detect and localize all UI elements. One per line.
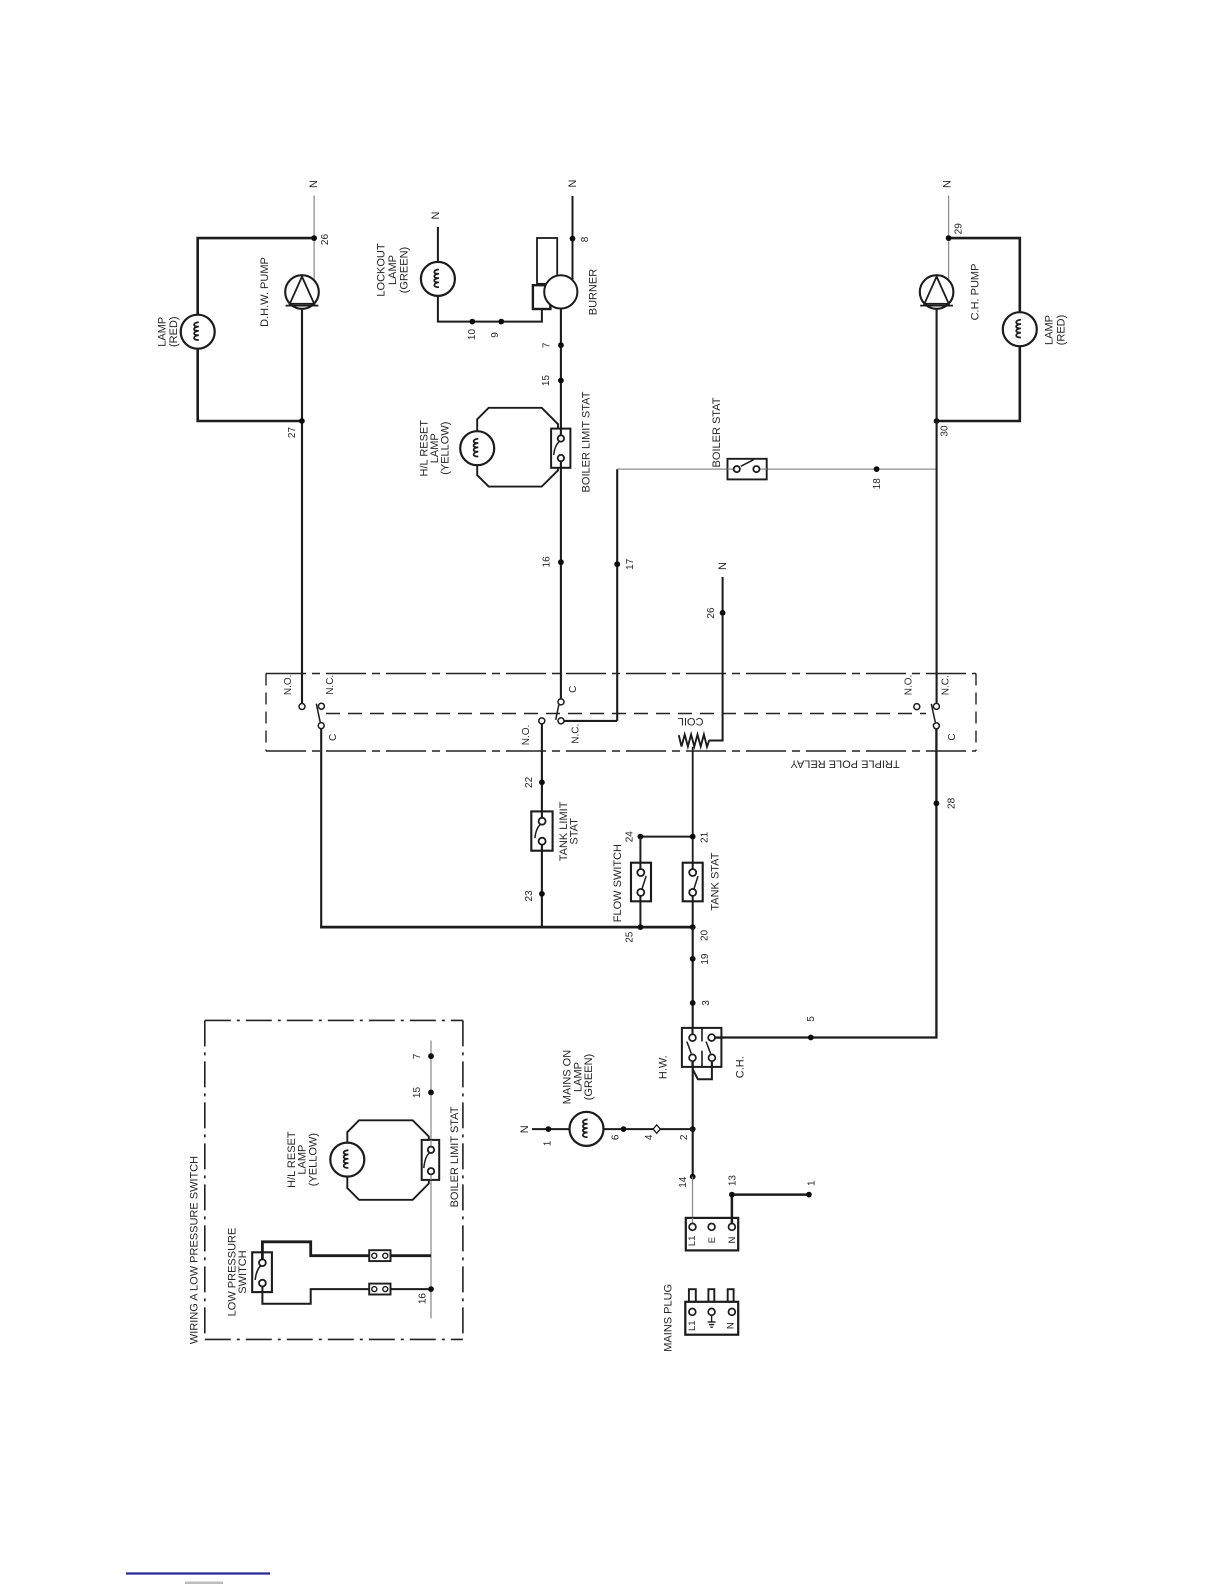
wire boiler stat left lead [617, 468, 734, 470]
selector mechanical link [693, 1061, 712, 1079]
wire node 24 to flow switch [639, 837, 641, 870]
relay pole 3 N.O. contact [914, 704, 920, 710]
svg-text:N.C.: N.C. [570, 724, 581, 744]
relay pole 1 N.C. contact [318, 703, 324, 709]
svg-text:N: N [567, 179, 579, 187]
relay coil feed from N [709, 577, 722, 741]
svg-text:N: N [717, 562, 729, 570]
switch selector H.W./C.H. [682, 1028, 722, 1067]
relay actuator dashed line [326, 713, 926, 715]
svg-text:MAINS PLUG: MAINS PLUG [663, 1284, 675, 1352]
coil COIL [679, 735, 709, 747]
node 1 (lamp) [545, 1126, 551, 1132]
relay pole 2 blade [556, 705, 559, 720]
node 21 [690, 834, 696, 840]
svg-text:4: 4 [644, 1134, 655, 1140]
node 26 [311, 235, 317, 241]
node 22 [539, 779, 545, 785]
svg-text:6: 6 [610, 1134, 621, 1140]
net N (burner lead) [572, 196, 574, 280]
svg-text:LOCKOUT: LOCKOUT [376, 243, 388, 296]
node 25 [638, 924, 644, 930]
wire terminal N to node 13 and 1 [732, 1195, 809, 1224]
node 4 (diamond) [653, 1125, 660, 1133]
svg-text:17: 17 [625, 558, 636, 570]
switch BOILER LIMIT STAT (inset) [422, 1140, 440, 1180]
node 23 [539, 891, 545, 897]
node 19 [690, 956, 696, 962]
node 14 [690, 1174, 696, 1180]
node 15 (inset) [428, 1090, 434, 1096]
wire lamp(red) loop 26-27 [198, 238, 314, 421]
node 10 [469, 319, 475, 325]
relay pole 1 blade [316, 704, 320, 723]
node 9 [498, 319, 504, 325]
svg-text:N: N [727, 1237, 738, 1244]
svg-text:20: 20 [700, 929, 711, 941]
svg-text:C.H.: C.H. [735, 1056, 747, 1078]
node 20 [690, 924, 696, 930]
lamp H/L RESET LAMP (YELLOW) main [460, 431, 494, 465]
svg-text:N: N [726, 1322, 737, 1329]
net N (C.H. neutral lead) [948, 196, 950, 239]
node 15 [558, 378, 564, 384]
relay pole 3 N.C. contact [933, 703, 939, 709]
node 13 [729, 1192, 735, 1198]
wire burner to boiler limit stat [560, 309, 562, 436]
switch BOILER STAT [728, 459, 767, 480]
svg-text:(GREEN): (GREEN) [399, 247, 411, 293]
svg-text:FLOW SWITCH: FLOW SWITCH [612, 844, 624, 922]
svg-text:N: N [519, 1125, 531, 1133]
svg-text:7: 7 [542, 342, 553, 348]
switch FLOW SWITCH [631, 863, 651, 902]
svg-text:18: 18 [872, 478, 883, 490]
svg-text:C: C [568, 686, 579, 693]
wire boiler stat right lead [760, 468, 937, 470]
svg-text:25: 25 [624, 931, 635, 943]
thermostat housing octagon (inset) [347, 1120, 429, 1200]
switch TANK LIMIT STAT [531, 811, 552, 850]
wire inset main line lower [430, 1175, 432, 1319]
wire low pressure switch upper run [262, 1242, 431, 1256]
svg-text:13: 13 [727, 1175, 738, 1187]
wire selector to node 2/14 [692, 1061, 694, 1176]
relay pole 1 N.O. contact [299, 704, 305, 710]
wire tank limit stat to bus [541, 845, 543, 927]
svg-text:D.H.W. PUMP: D.H.W. PUMP [259, 257, 271, 327]
svg-text:15: 15 [412, 1087, 423, 1099]
relay pole 2 N.O. contact [539, 718, 545, 724]
node 7 (inset) [428, 1053, 434, 1059]
svg-text:N.C.: N.C. [941, 675, 952, 695]
node 6 [621, 1126, 627, 1132]
wire lockout lamp to burner [438, 296, 542, 322]
pump C.H. PUMP [920, 275, 954, 309]
svg-text:SWITCH: SWITCH [237, 1250, 249, 1293]
svg-text:19: 19 [700, 953, 711, 965]
svg-text:TRIPLE POLE RELAY: TRIPLE POLE RELAY [790, 757, 900, 769]
wire coil to node 21 [692, 747, 694, 869]
wire lamp(red) loop 29-30 [938, 238, 1020, 421]
inset box WIRING A LOW PRESSURE SWITCH [205, 1019, 463, 1021]
node 17 [614, 561, 620, 567]
wire boiler limit stat to relay C [560, 461, 562, 700]
net N (lockout lamp lead) [437, 227, 439, 296]
svg-text:(RED): (RED) [1056, 315, 1068, 346]
connector MAINS PLUG [689, 1289, 696, 1302]
svg-text:N.O.: N.O. [283, 675, 294, 696]
svg-text:L1: L1 [687, 1236, 698, 1247]
wire CH pump to relay N.C. [936, 309, 938, 705]
svg-text:BOILER STAT: BOILER STAT [711, 397, 723, 467]
lamp LOCKOUT LAMP (GREEN) [421, 262, 455, 296]
node 5 [808, 1035, 814, 1041]
svg-text:BURNER: BURNER [587, 269, 599, 316]
node 3 [690, 1000, 696, 1006]
svg-text:C: C [328, 734, 339, 741]
terminal block L1 E N [686, 1218, 738, 1251]
svg-text:COIL: COIL [678, 715, 704, 727]
node 7 [558, 342, 564, 348]
svg-text:9: 9 [490, 332, 501, 338]
svg-text:LAMP: LAMP [1043, 315, 1055, 345]
svg-text:5: 5 [806, 1016, 817, 1022]
relay pole 1 C contact [318, 723, 324, 729]
svg-text:E: E [707, 1237, 718, 1243]
svg-text:2: 2 [679, 1134, 690, 1140]
wire low pressure switch lower run [262, 1289, 431, 1304]
svg-text:10: 10 [467, 329, 478, 341]
wire N to node 2 [532, 1128, 693, 1130]
ground symbol (plug earth) [711, 1315, 713, 1322]
svg-text:N: N [942, 180, 954, 188]
connector (lower) [369, 1284, 390, 1295]
svg-text:STAT: STAT [569, 818, 581, 845]
svg-text:(RED): (RED) [168, 316, 180, 347]
wire relay right C to node 5 line [715, 729, 936, 1038]
connector (upper) [369, 1250, 390, 1261]
node 16 (inset) [428, 1286, 434, 1292]
svg-text:N.C.: N.C. [325, 675, 336, 695]
svg-text:8: 8 [580, 236, 591, 242]
switch LOW PRESSURE SWITCH [252, 1252, 272, 1292]
svg-text:7: 7 [412, 1053, 423, 1059]
wire DHW pump to relay N.O. [301, 309, 303, 705]
svg-text:(YELLOW): (YELLOW) [440, 422, 452, 475]
switch TANK STAT [683, 863, 703, 902]
thermostat housing octagon (main) [477, 408, 558, 487]
svg-text:26: 26 [320, 234, 331, 246]
svg-text:C.H. PUMP: C.H. PUMP [970, 264, 982, 321]
wire tank stat to node 20 [692, 896, 694, 927]
svg-text:C: C [947, 733, 958, 740]
wire inset main line upper [430, 1041, 432, 1147]
svg-text:1: 1 [542, 1140, 553, 1146]
svg-text:BOILER LIMIT STAT: BOILER LIMIT STAT [580, 391, 592, 492]
svg-text:3: 3 [701, 1000, 712, 1006]
svg-text:(YELLOW): (YELLOW) [307, 1133, 319, 1186]
node 30 [934, 418, 940, 424]
node 26 (coil) [720, 610, 726, 616]
lamp LAMP (RED) right [1003, 312, 1037, 346]
svg-text:23: 23 [524, 890, 535, 902]
wire relay pole2 N.O. to tank limit stat [541, 724, 543, 818]
bus wire 25-20 [320, 926, 693, 929]
svg-text:29: 29 [954, 223, 965, 235]
svg-text:(GREEN): (GREEN) [583, 1054, 595, 1100]
node 29 [946, 235, 952, 241]
svg-text:TANK STAT: TANK STAT [710, 852, 722, 910]
svg-text:N.O.: N.O. [904, 675, 915, 696]
lamp H/L RESET LAMP (YELLOW) inset [330, 1143, 364, 1177]
svg-text:30: 30 [939, 425, 950, 437]
svg-text:WIRING A LOW PRESSURE SWITCH: WIRING A LOW PRESSURE SWITCH [188, 1156, 200, 1344]
svg-text:14: 14 [678, 1176, 689, 1188]
wire relay pole1 C down to bus [320, 729, 322, 927]
wire flow switch to node 25 [639, 896, 641, 927]
relay pole 3 C contact [933, 723, 939, 729]
svg-text:N: N [308, 180, 320, 188]
svg-text:28: 28 [946, 797, 957, 809]
node 8 [570, 236, 576, 242]
relay TRIPLE POLE RELAY box [266, 673, 976, 675]
relay pole 3 blade [931, 704, 935, 722]
svg-text:BOILER LIMIT STAT: BOILER LIMIT STAT [449, 1106, 461, 1207]
wire node 14 to terminal L1 [692, 1177, 694, 1224]
svg-text:22: 22 [524, 776, 535, 788]
svg-text:15: 15 [541, 375, 552, 387]
svg-text:LAMP: LAMP [156, 317, 168, 347]
switch BOILER LIMIT STAT (main) [551, 429, 570, 468]
svg-text:LAMP: LAMP [387, 255, 399, 285]
lamp MAINS ON LAMP (GREEN) [570, 1112, 604, 1146]
svg-text:1: 1 [807, 1180, 818, 1186]
node 2 [690, 1126, 696, 1132]
svg-text:N: N [430, 211, 442, 219]
footer rule [126, 1572, 270, 1574]
node 28 [934, 800, 940, 806]
svg-text:24: 24 [624, 831, 635, 843]
relay pole 2 C contact [558, 699, 564, 705]
svg-text:N.O.: N.O. [521, 725, 532, 746]
svg-text:21: 21 [700, 831, 711, 843]
burner BURNER [537, 238, 557, 284]
net N (D.H.W. neutral lead) [313, 196, 315, 239]
node 18 [874, 466, 880, 472]
svg-text:26: 26 [706, 607, 717, 619]
wire node 20 to selector [692, 927, 694, 1034]
svg-text:L1: L1 [687, 1320, 698, 1331]
svg-text:16: 16 [542, 556, 553, 568]
wire node 24 to node 21 [640, 836, 692, 838]
node 1 (terminal) [806, 1192, 812, 1198]
svg-text:27: 27 [287, 427, 298, 439]
svg-text:H.W.: H.W. [657, 1055, 669, 1079]
relay pole 2 N.C. contact [558, 718, 564, 724]
svg-text:16: 16 [417, 1293, 428, 1305]
node 24 [638, 834, 644, 840]
lamp LAMP (RED) left [181, 315, 215, 349]
pump D.H.W. PUMP [285, 275, 319, 309]
node 16 [558, 559, 564, 565]
wire relay mid N.C. to boiler stat [564, 720, 617, 722]
